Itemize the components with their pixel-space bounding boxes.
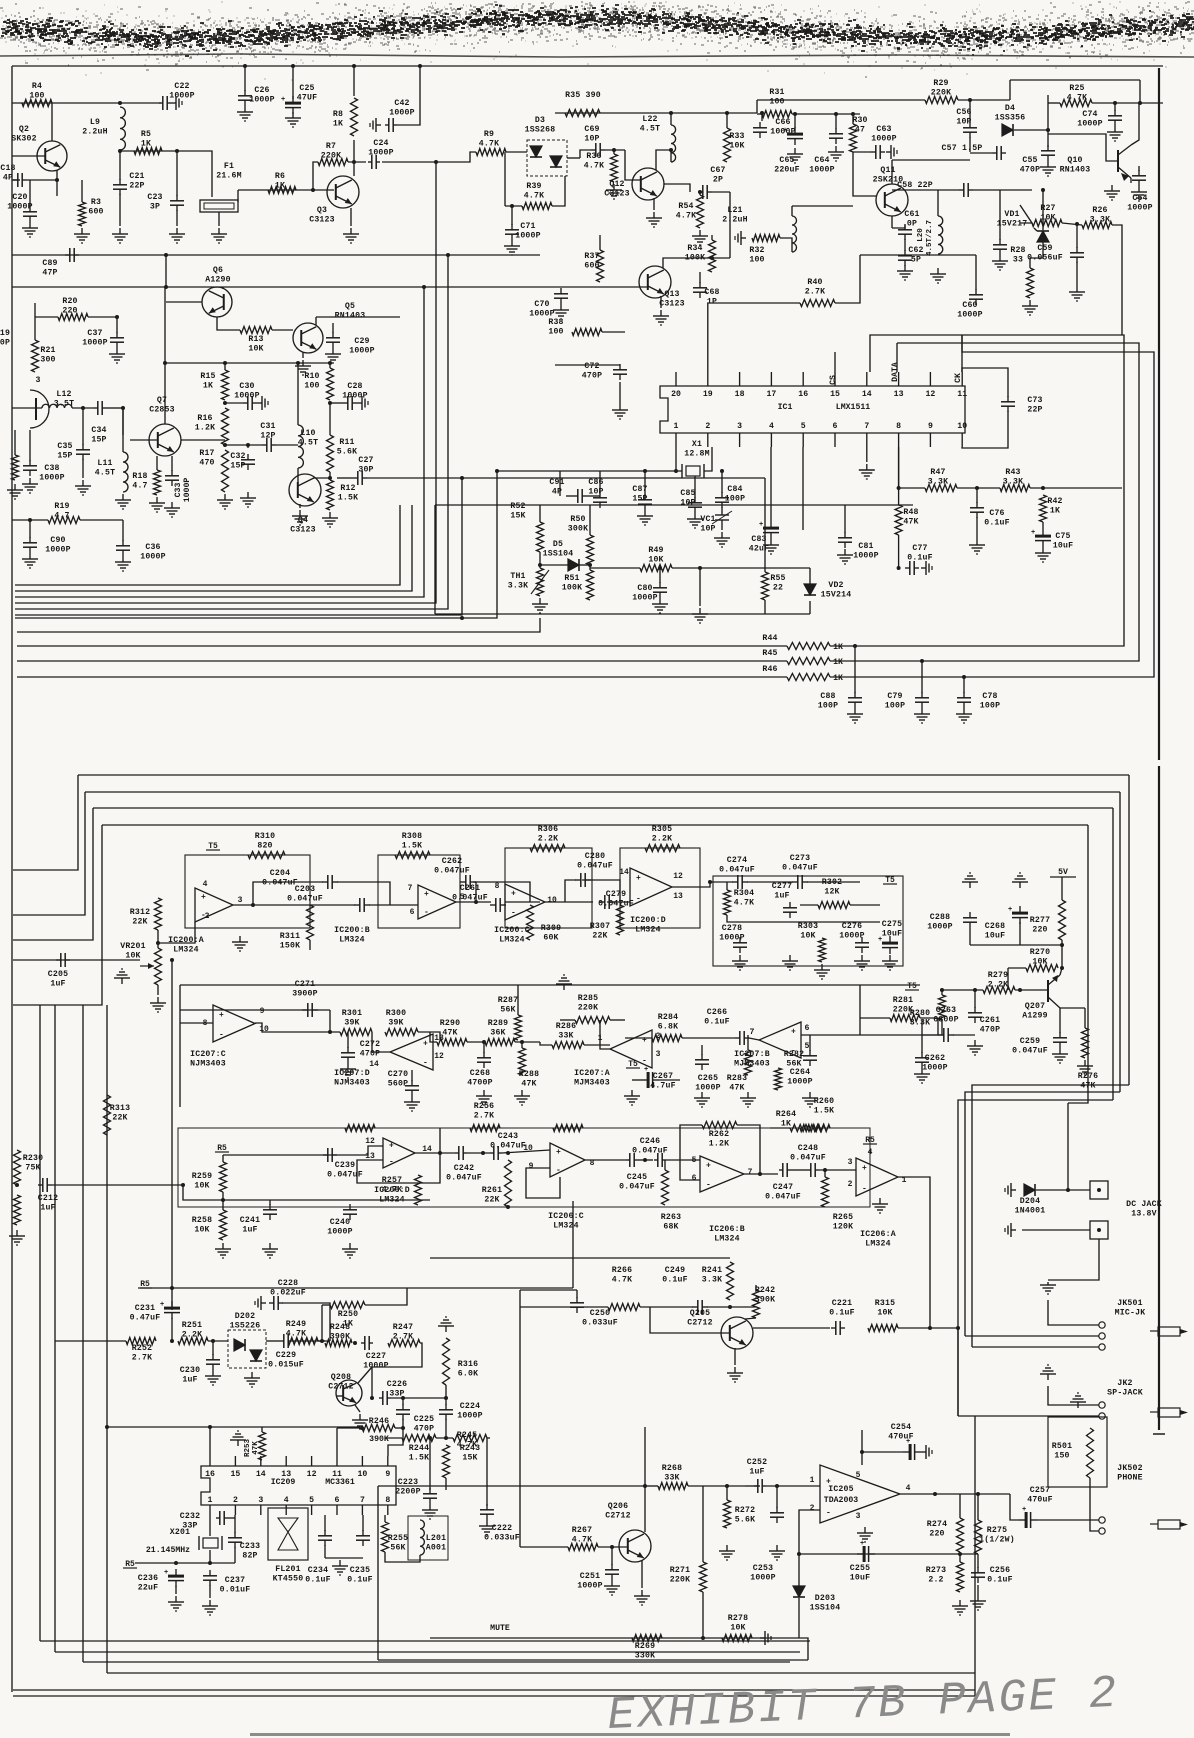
pin 17 stub bbox=[770, 372, 772, 386]
resistor R250 bbox=[330, 1302, 365, 1329]
R31 wire bbox=[757, 113, 762, 115]
capacitor C20 bbox=[7, 193, 37, 222]
Q4 emitter bbox=[299, 504, 301, 508]
svg-text:C58 22P: C58 22P bbox=[897, 181, 933, 190]
capacitor C253 bbox=[750, 1507, 784, 1583]
frame b2 bbox=[85, 791, 1120, 793]
C27 out bbox=[367, 477, 765, 479]
svg-text:C250: C250 bbox=[590, 1309, 610, 1318]
c in wire bbox=[502, 1150, 550, 1153]
svg-text:1.2K: 1.2K bbox=[195, 424, 215, 433]
svg-text:470P: 470P bbox=[360, 1050, 380, 1059]
svg-text:22: 22 bbox=[773, 584, 783, 593]
op-amp IC200:A bbox=[168, 880, 242, 955]
c224 dn bbox=[445, 1419, 447, 1438]
long col x172 bbox=[171, 960, 173, 1310]
capacitor C236 bbox=[138, 1569, 184, 1593]
capacitor C272 bbox=[341, 1040, 380, 1063]
r280 dn bbox=[922, 1020, 942, 1035]
b3 out bbox=[744, 1173, 778, 1175]
c253 top bbox=[776, 1486, 778, 1508]
svg-text:4.7K: 4.7K bbox=[524, 192, 544, 201]
svg-text:1uF: 1uF bbox=[40, 1204, 55, 1213]
L10 top bbox=[297, 363, 299, 425]
svg-text:2.7K: 2.7K bbox=[805, 288, 825, 297]
svg-text:L9: L9 bbox=[90, 118, 100, 127]
label C33v bbox=[183, 478, 192, 503]
ground C35 gnd bbox=[75, 480, 91, 495]
svg-text:1uF: 1uF bbox=[774, 892, 789, 901]
ground C253 gnd bbox=[769, 1545, 785, 1560]
R20 stub bbox=[34, 303, 36, 340]
svg-text:0.047uF: 0.047uF bbox=[598, 900, 634, 909]
R55 bot bbox=[764, 600, 766, 614]
ground C72 gnd bbox=[612, 382, 628, 419]
r284 c266 bbox=[682, 1037, 735, 1039]
R246 val bbox=[369, 1435, 389, 1444]
svg-text:FL201: FL201 bbox=[275, 1565, 301, 1574]
ground VC1 gnd bbox=[714, 532, 730, 547]
x201 dn bbox=[209, 1550, 211, 1563]
ground C90 gnd bbox=[22, 553, 38, 568]
c231 dn bbox=[171, 1318, 173, 1341]
left border bbox=[11, 66, 13, 1692]
svg-text:0P: 0P bbox=[0, 339, 10, 348]
frame b3 left bbox=[13, 808, 93, 940]
svg-text:470P: 470P bbox=[1020, 166, 1040, 175]
capacitor C248h bbox=[779, 1144, 826, 1177]
svg-text:6: 6 bbox=[335, 1496, 340, 1505]
svg-text:7: 7 bbox=[749, 1028, 754, 1037]
svg-text:R265: R265 bbox=[833, 1213, 853, 1222]
svg-text:6.8K: 6.8K bbox=[658, 1023, 678, 1032]
r271 dn bbox=[702, 1592, 704, 1638]
gnd drop 700 bbox=[699, 568, 701, 606]
svg-text:C249: C249 bbox=[665, 1266, 685, 1275]
output network box bbox=[713, 876, 903, 966]
svg-text:1000P: 1000P bbox=[183, 478, 192, 503]
pin 1 stub b bbox=[675, 433, 677, 447]
ground C37 gnd bbox=[109, 348, 125, 363]
resistor R8 bbox=[333, 98, 358, 136]
resistor R308 bbox=[395, 832, 430, 859]
transistor Q208 bbox=[328, 1373, 362, 1406]
resistor R246 bbox=[362, 1417, 395, 1432]
jk501 w3 bbox=[972, 1346, 1099, 1348]
d in bbox=[360, 1146, 383, 1155]
svg-text:22K: 22K bbox=[484, 1196, 499, 1205]
capacitor C278 bbox=[719, 924, 747, 953]
thermistor TH1 bbox=[537, 568, 544, 596]
svg-text:C34: C34 bbox=[91, 426, 106, 435]
right border tick bbox=[1153, 1433, 1165, 1435]
r247 out bbox=[372, 1343, 422, 1398]
resistor R54 bbox=[676, 195, 704, 228]
capacitor C261b bbox=[452, 884, 506, 912]
jout2 bbox=[976, 1492, 980, 1496]
pin 2 IC1 bbox=[705, 422, 710, 431]
jack JK502 plug bbox=[1150, 1520, 1188, 1529]
capacitor C261 bbox=[968, 1007, 1000, 1035]
svg-text:7: 7 bbox=[360, 1496, 365, 1505]
svg-text:R38: R38 bbox=[548, 318, 563, 327]
svg-text:C89: C89 bbox=[42, 259, 57, 268]
svg-text:470: 470 bbox=[199, 459, 214, 468]
capacitor C54 bbox=[1127, 170, 1153, 213]
svg-text:220K: 220K bbox=[893, 1006, 913, 1015]
jk501 w1 bbox=[1048, 1300, 1099, 1325]
svg-text:3.5T: 3.5T bbox=[54, 400, 74, 409]
c84 up bbox=[721, 471, 723, 493]
resistor R45 bbox=[762, 649, 830, 665]
C18-R3 link bbox=[12, 179, 20, 181]
svg-text:0.01uF: 0.01uF bbox=[220, 1586, 251, 1595]
svg-text:R289: R289 bbox=[488, 1019, 508, 1028]
pin 15 stub 209 bbox=[234, 1456, 236, 1466]
top rail bbox=[12, 65, 1163, 67]
jq206 bbox=[643, 1484, 647, 1488]
op-amp IC206:D bbox=[365, 1137, 432, 1205]
svg-text:IC207:C: IC207:C bbox=[190, 1050, 226, 1059]
ground C21 gnd bbox=[112, 228, 128, 243]
vr wire bbox=[13, 959, 140, 961]
svg-text:RN1403: RN1403 bbox=[335, 312, 366, 321]
ground C77 gnd bbox=[921, 561, 932, 575]
pin 2 stub 209b bbox=[234, 1505, 236, 1515]
svg-text:C27: C27 bbox=[358, 456, 373, 465]
svg-text:R17: R17 bbox=[199, 449, 214, 458]
pin 12 stub bbox=[929, 372, 931, 386]
svg-text:100: 100 bbox=[769, 98, 784, 107]
svg-text:68K: 68K bbox=[663, 1223, 678, 1232]
svg-text:C72: C72 bbox=[584, 362, 599, 371]
junction Q3 base bbox=[311, 188, 315, 192]
svg-text:C62: C62 bbox=[908, 246, 923, 255]
capacitor C85 bbox=[680, 489, 702, 513]
svg-text:IC205: IC205 bbox=[828, 1485, 854, 1494]
Q4 base bbox=[297, 468, 299, 483]
svg-text:15: 15 bbox=[230, 1470, 240, 1479]
R39 left bbox=[504, 152, 506, 206]
svg-text:R253: R253 bbox=[244, 1439, 252, 1458]
svg-text:MUTE: MUTE bbox=[490, 1624, 510, 1633]
svg-text:R36: R36 bbox=[586, 152, 601, 161]
jR26 bbox=[1075, 222, 1079, 226]
pin 19 IC1 bbox=[703, 390, 713, 399]
c225 dn bbox=[402, 1419, 404, 1428]
pin 8 stub 209b bbox=[387, 1505, 389, 1515]
svg-text:5: 5 bbox=[856, 1471, 861, 1480]
mute wire bbox=[430, 1637, 775, 1639]
R34 bot link bbox=[712, 257, 730, 259]
svg-text:R248: R248 bbox=[330, 1323, 350, 1332]
jTH1 bbox=[538, 563, 542, 567]
j modwire bbox=[105, 1425, 109, 1429]
svg-text:R272: R272 bbox=[735, 1506, 755, 1515]
C30 wire bbox=[225, 402, 243, 404]
svg-text:1(1/2W): 1(1/2W) bbox=[979, 1535, 1015, 1545]
transistor Q5 bbox=[293, 302, 365, 353]
svg-text:0.1uF: 0.1uF bbox=[347, 1576, 373, 1585]
jR25a bbox=[1113, 101, 1117, 105]
varactor D3 box bbox=[527, 140, 567, 176]
left col x83 bbox=[82, 1005, 84, 1662]
D4 wire bbox=[969, 137, 971, 152]
r315 drop bbox=[957, 1328, 959, 1416]
capacitor C67 bbox=[698, 166, 726, 199]
ground C83 gnd bbox=[763, 539, 779, 554]
svg-text:R50: R50 bbox=[570, 515, 585, 524]
C55 drop bbox=[1047, 95, 1049, 147]
svg-text:1000P: 1000P bbox=[234, 392, 260, 401]
svg-text:10P: 10P bbox=[680, 499, 695, 508]
jR33 bbox=[725, 111, 729, 115]
R38 wire bbox=[602, 331, 625, 333]
svg-text:12: 12 bbox=[925, 390, 935, 399]
svg-text:+: + bbox=[511, 890, 516, 899]
jr316 bbox=[444, 1396, 448, 1400]
transistor Q205 bbox=[687, 1309, 753, 1349]
svg-text:R15: R15 bbox=[200, 372, 215, 381]
Q6 top bbox=[216, 286, 218, 288]
fb link bbox=[253, 882, 323, 905]
ground VR201 gnd bbox=[150, 997, 166, 1012]
ground IC1 gnd bbox=[859, 464, 875, 479]
svg-text:-: - bbox=[389, 1158, 394, 1167]
svg-text:220: 220 bbox=[929, 1530, 944, 1539]
pin 16 IC1 bbox=[798, 390, 808, 399]
svg-text:IC200:D: IC200:D bbox=[630, 916, 666, 925]
svg-text:C71: C71 bbox=[520, 222, 535, 231]
svg-text:VC1: VC1 bbox=[700, 515, 715, 524]
diode VD1 bbox=[1034, 228, 1049, 242]
svg-text:100P: 100P bbox=[885, 702, 905, 711]
a out bbox=[233, 904, 355, 906]
Q12 base bbox=[625, 150, 641, 180]
pin 15 IC1 bbox=[830, 390, 840, 399]
svg-text:C228: C228 bbox=[278, 1279, 298, 1288]
pin 1 IC209b bbox=[208, 1496, 213, 1505]
svg-text:1.2K: 1.2K bbox=[709, 1140, 729, 1149]
ground Q3 gnd bbox=[343, 228, 359, 243]
mod drop bbox=[572, 1201, 574, 1288]
capacitor C250 bbox=[570, 1297, 618, 1328]
c235 up bbox=[362, 1515, 364, 1531]
transistor Q2 bbox=[11, 125, 67, 171]
svg-text:IC206:B: IC206:B bbox=[709, 1225, 745, 1234]
svg-text:C37: C37 bbox=[87, 329, 102, 338]
capacitor C221 bbox=[829, 1299, 855, 1335]
b out bbox=[456, 901, 491, 903]
label VR201 bbox=[120, 942, 146, 961]
svg-text:C251: C251 bbox=[580, 1572, 600, 1581]
bus bot 1 bbox=[40, 1640, 810, 1642]
resistor R287 bbox=[498, 996, 522, 1040]
ground C29 gnd bbox=[325, 348, 341, 363]
pin 17 IC1 bbox=[766, 390, 776, 399]
capacitor C251 bbox=[577, 1564, 619, 1591]
svg-text:4.7K: 4.7K bbox=[584, 162, 604, 171]
resistor R9 bbox=[476, 130, 506, 156]
resistor R310 bbox=[248, 832, 285, 859]
resistor R6 bbox=[268, 172, 296, 194]
capacitor C90 bbox=[23, 536, 71, 555]
capacitor C72 bbox=[582, 362, 627, 381]
Q11 top wire bbox=[892, 159, 970, 161]
row3 mid wire bbox=[520, 1306, 608, 1308]
IC200:B fb box bbox=[378, 855, 460, 928]
diode D204 bbox=[1015, 1184, 1046, 1216]
capacitor C34 bbox=[91, 401, 107, 445]
frame b1 left bbox=[13, 775, 78, 870]
jr272 bbox=[725, 1484, 729, 1488]
dc wire2 bbox=[1022, 1229, 1090, 1231]
right border heavy bbox=[1158, 68, 1160, 760]
resistor R277 bbox=[1030, 900, 1066, 940]
pin 3 stub 209b bbox=[260, 1505, 262, 1515]
c288 dn bbox=[969, 928, 971, 945]
svg-text:12: 12 bbox=[434, 1052, 444, 1061]
amp bottom bbox=[378, 1659, 808, 1661]
svg-text:15P: 15P bbox=[91, 436, 106, 445]
bus bot 2 bbox=[55, 1651, 800, 1653]
pin 11 stub bbox=[961, 372, 963, 386]
label JK501 bbox=[1115, 1299, 1146, 1318]
ground D202 gnd bbox=[244, 1372, 260, 1387]
r311 gnd bbox=[309, 940, 311, 950]
svg-text:R260: R260 bbox=[814, 1097, 834, 1106]
bus junction g1-5 bbox=[460, 476, 464, 480]
jc253 bbox=[775, 1484, 779, 1488]
C60u top bbox=[999, 190, 1001, 240]
jC65 bbox=[793, 112, 797, 116]
ground C251 gnd bbox=[604, 1580, 620, 1595]
th1 top bbox=[539, 552, 541, 568]
resistor R268 bbox=[658, 1464, 688, 1490]
C27 wire bbox=[337, 477, 353, 479]
row3 box bbox=[178, 1128, 870, 1207]
svg-text:R29: R29 bbox=[933, 79, 948, 88]
resistor R303 bbox=[798, 922, 826, 962]
svg-text:R501: R501 bbox=[1052, 1442, 1072, 1451]
resistor R313 bbox=[104, 1095, 131, 1135]
R312-VR bbox=[157, 930, 159, 948]
svg-text:TDA2003: TDA2003 bbox=[824, 1496, 858, 1505]
capacitor C66 bbox=[753, 118, 796, 138]
capacitor C59 bbox=[1027, 244, 1084, 263]
svg-text:C247: C247 bbox=[773, 1183, 793, 1192]
svg-text:C277: C277 bbox=[772, 882, 792, 891]
resistor R5 bbox=[134, 130, 162, 155]
svg-text:D203: D203 bbox=[815, 1594, 835, 1603]
svg-text:R275: R275 bbox=[987, 1526, 1007, 1535]
svg-text:4.7K: 4.7K bbox=[572, 1536, 592, 1545]
svg-text:13: 13 bbox=[673, 892, 683, 901]
resistor R300 bbox=[385, 1009, 418, 1036]
C60 top bbox=[975, 255, 977, 290]
pin8 dn bbox=[898, 447, 900, 488]
r244 l bbox=[385, 1437, 402, 1439]
D3 exit bbox=[567, 157, 580, 159]
svg-text:R33: R33 bbox=[729, 132, 744, 141]
svg-text:NJM3403: NJM3403 bbox=[190, 1060, 226, 1069]
R35 wire bbox=[555, 112, 757, 114]
svg-text:R48: R48 bbox=[903, 508, 918, 517]
pin 3 stub b bbox=[739, 433, 741, 447]
capacitor C268 bbox=[985, 906, 1028, 941]
svg-text:C57 1.5P: C57 1.5P bbox=[942, 144, 983, 153]
ground C241 gnd bbox=[262, 1243, 278, 1258]
svg-text:16: 16 bbox=[798, 390, 808, 399]
svg-text:+: + bbox=[423, 1040, 428, 1049]
diode D202b bbox=[250, 1350, 262, 1361]
ground wire gnd bbox=[692, 608, 708, 623]
c262 top bbox=[921, 1020, 923, 1053]
svg-text:C263: C263 bbox=[936, 1006, 956, 1015]
svg-text:R51: R51 bbox=[564, 574, 579, 583]
c86 link bbox=[566, 495, 574, 497]
svg-text:C234: C234 bbox=[308, 1566, 328, 1575]
transistor Q11 bbox=[873, 166, 908, 216]
D5 left bbox=[540, 564, 568, 566]
r246 wire bbox=[337, 1427, 362, 1429]
pin 5 IC1 bbox=[801, 422, 806, 431]
capacitor C254 bbox=[888, 1423, 921, 1460]
ground DC sgnd2 bbox=[1005, 1223, 1016, 1237]
svg-text:1.5K: 1.5K bbox=[409, 1454, 429, 1463]
ground Q13 gnd bbox=[653, 310, 669, 325]
svg-text:C242: C242 bbox=[454, 1164, 474, 1173]
c in bbox=[180, 1022, 213, 1024]
R5 wire bbox=[120, 150, 176, 152]
ground C234 gnd bbox=[332, 1560, 348, 1575]
op-amp IC200:C bbox=[494, 882, 557, 945]
jc230 bbox=[211, 1339, 215, 1343]
junction C26 bbox=[243, 64, 247, 68]
r300 out bbox=[418, 1032, 440, 1040]
ground C80 gnd bbox=[652, 598, 668, 613]
svg-text:5V: 5V bbox=[1058, 868, 1068, 877]
capacitor C243h bbox=[490, 1132, 526, 1160]
svg-text:6: 6 bbox=[410, 908, 415, 917]
svg-text:D3: D3 bbox=[535, 116, 545, 125]
capacitor C31 bbox=[260, 422, 276, 452]
resistor R26 bbox=[1082, 206, 1112, 229]
svg-text:VD1: VD1 bbox=[1004, 210, 1019, 219]
C69 out bbox=[605, 149, 625, 151]
svg-text:DC JACK: DC JACK bbox=[1126, 1200, 1162, 1209]
frame b2 right bbox=[1119, 792, 1121, 1092]
ground C25 gnd bbox=[285, 112, 301, 127]
jC58 bbox=[1041, 188, 1045, 192]
rail y255 bbox=[12, 254, 540, 256]
pin 20 IC1 bbox=[671, 390, 681, 399]
ground C261 gnd bbox=[967, 1040, 983, 1055]
svg-text:R247: R247 bbox=[393, 1323, 413, 1332]
svg-text:100: 100 bbox=[548, 328, 563, 337]
capacitor C75 bbox=[1031, 529, 1073, 551]
bus bot 4 bbox=[107, 1672, 975, 1674]
svg-text:470P: 470P bbox=[980, 1026, 1000, 1035]
svg-text:C68: C68 bbox=[704, 288, 719, 297]
ground net gnd1 bbox=[732, 955, 748, 970]
c268 dn bbox=[1019, 922, 1021, 945]
svg-text:10P: 10P bbox=[588, 488, 603, 497]
fb wire bbox=[799, 1553, 978, 1555]
svg-text:Q4: Q4 bbox=[298, 516, 308, 525]
jk2 w2 bbox=[958, 1415, 1099, 1417]
svg-text:CS: CS bbox=[829, 375, 838, 385]
